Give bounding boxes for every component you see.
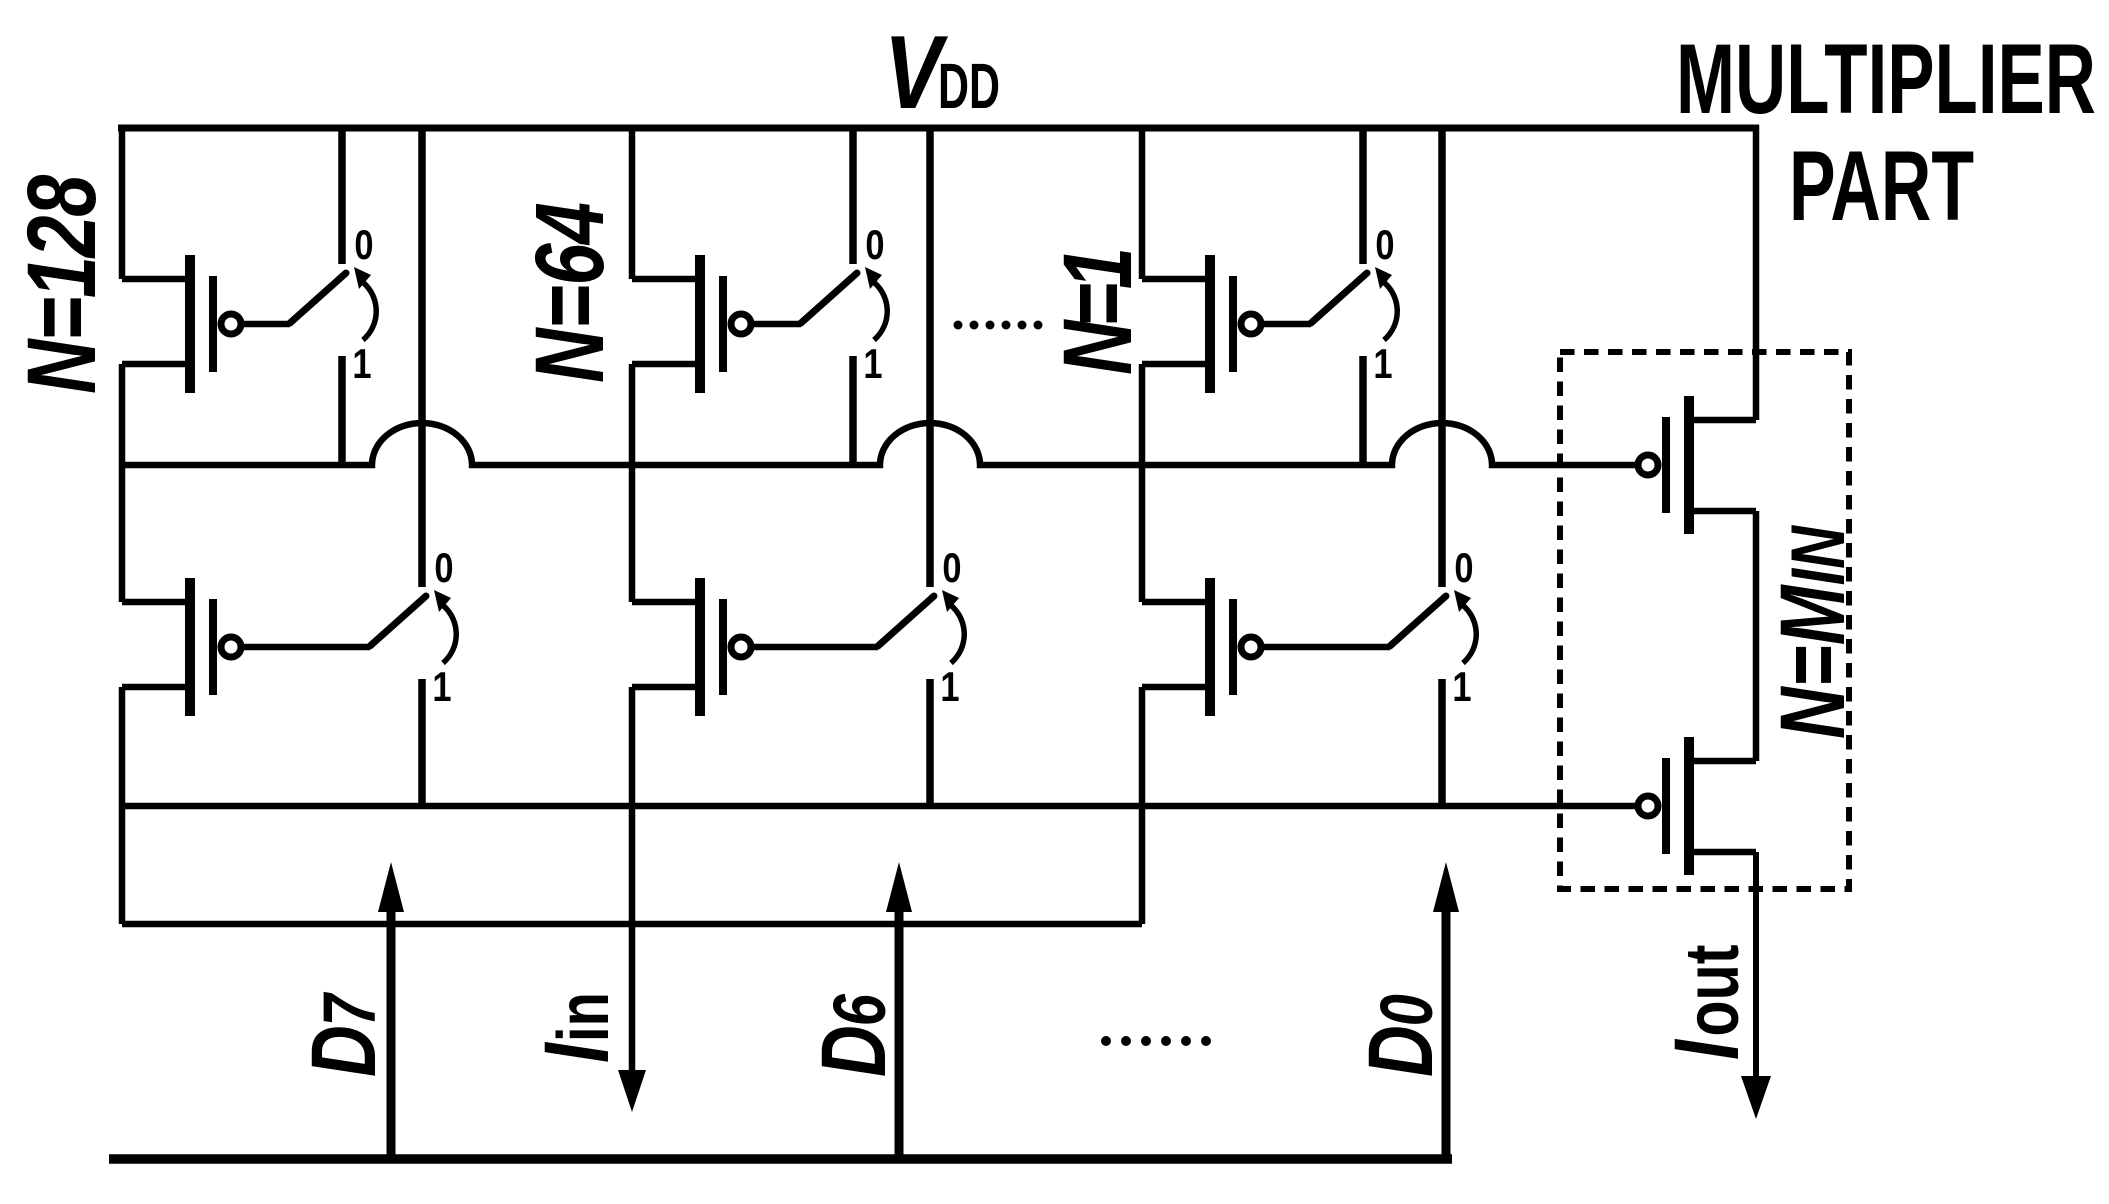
- svg-text:0: 0: [1375, 222, 1394, 269]
- label Iin: [525, 992, 628, 1063]
- switch S3a (D0 row1): [1311, 267, 1397, 340]
- svg-text:N=128: N=128: [8, 174, 116, 394]
- wire cell2 VDD to row1 source: [629, 125, 636, 279]
- transistor Mout-top (N=MIN mirror, upper): [1638, 396, 1756, 534]
- wire cell2 row2 drain to Iin tail: [629, 687, 636, 1074]
- svg-text:1: 1: [1373, 341, 1392, 388]
- Iout arrowhead: [1741, 1076, 1771, 1119]
- digital bus (node DB): [122, 921, 1142, 928]
- switch S1a contact-0 stub (to VDD): [338, 125, 346, 264]
- svg-text:DD: DD: [938, 50, 1000, 122]
- row-1 gate bus (node G1) with hops: [122, 423, 1636, 465]
- wire cell1 row2 drain to bus G2: [119, 687, 126, 806]
- wire VDD feed cell1 (to switch S1b contact-0): [418, 125, 426, 587]
- switch S3a contact-0 stub (to VDD): [1359, 125, 1367, 264]
- wire VDD feed cell2 (to switch S2b contact-0): [926, 125, 934, 587]
- bottom rail: [109, 1154, 1452, 1164]
- gate lead M1a: [242, 321, 290, 328]
- svg-text:0: 0: [942, 545, 961, 592]
- D7 arrowhead: [378, 862, 404, 912]
- label D0: [1349, 994, 1452, 1077]
- switch S3b (D0 row2): [1390, 590, 1476, 663]
- svg-text:0: 0: [865, 222, 884, 269]
- D6 input line: [895, 907, 904, 1159]
- svg-text:in: in: [543, 992, 623, 1042]
- svg-text:1: 1: [352, 341, 371, 388]
- label VDD: [884, 15, 1000, 131]
- switch S2a contact-0 stub (to VDD): [849, 125, 857, 264]
- label D6: [802, 993, 905, 1077]
- wire cell3 row2 drain to bus G2: [1139, 687, 1146, 806]
- switch S2b contact-1 stub (to bus G2): [926, 679, 934, 806]
- wire Mout-top drain to Mout-bottom source: [1753, 511, 1760, 761]
- svg-text:1: 1: [863, 341, 882, 388]
- svg-text:6: 6: [819, 993, 902, 1026]
- D0 arrowhead: [1433, 862, 1459, 912]
- svg-text:0: 0: [1366, 994, 1449, 1026]
- svg-text:7: 7: [309, 992, 392, 1027]
- switch S1a contact-1 stub (to bus G1): [338, 356, 346, 465]
- gate lead M3b: [1262, 644, 1390, 651]
- transistor Mout-bottom (N=MIN mirror, lower): [1638, 737, 1756, 875]
- svg-text:1: 1: [432, 664, 451, 711]
- switch S1b contact-1 stub (to bus G2): [418, 679, 426, 806]
- D6 arrowhead: [886, 862, 912, 912]
- switch S1a (D7 row1): [290, 267, 376, 340]
- gate lead M1b: [242, 644, 370, 651]
- gate lead M2a: [752, 321, 801, 328]
- wire cell1 bus G2 down to digital bus: [119, 806, 126, 924]
- svg-text:D: D: [802, 1025, 905, 1077]
- switch S3b contact-1 stub (to bus G2): [1438, 679, 1446, 806]
- svg-text:N=64: N=64: [516, 202, 624, 383]
- wire cell3 bus G2 down to digital bus: [1139, 806, 1146, 924]
- svg-text:out: out: [1670, 944, 1755, 1036]
- wire VDD feed cell3 (to switch S3b contact-0): [1438, 125, 1446, 587]
- gate lead M3a: [1262, 321, 1311, 328]
- svg-text:I: I: [1655, 1038, 1758, 1060]
- D0 input line: [1442, 907, 1451, 1159]
- svg-text:0: 0: [434, 545, 453, 592]
- wire VDD to Mout-top source: [1753, 125, 1760, 420]
- switch S3a contact-1 stub (to bus G1): [1359, 356, 1367, 465]
- wire cell2 bus G1 to row2 source: [629, 465, 636, 602]
- wire cell1 bus G1 to row2 source: [119, 465, 126, 602]
- dots (omitted cells, row 1): [954, 321, 1043, 330]
- transistor M1a (row1, N=128): [122, 255, 241, 393]
- gate lead Mout-top (from bus G1): [1635, 462, 1636, 469]
- wire cell3 row1 drain to bus G1: [1139, 364, 1146, 465]
- wire cell1 row1 drain to bus G1: [119, 364, 126, 465]
- svg-text:D: D: [292, 1025, 395, 1077]
- label Iout: [1655, 944, 1758, 1060]
- label D7: [292, 992, 395, 1077]
- switch S2b (D6 row2): [878, 590, 964, 663]
- dashed box N=MIN: [1560, 352, 1849, 889]
- transistor M2a (row1, N=64): [632, 255, 751, 393]
- svg-text:0: 0: [354, 222, 373, 269]
- switch S1b (D7 row2): [370, 590, 456, 663]
- wire cell1 VDD to row1 source: [119, 125, 126, 279]
- label N=MIN: [1761, 525, 1864, 739]
- transistor M1b (row2): [122, 578, 241, 716]
- switch S2a (D6 row1): [801, 267, 887, 340]
- wire cell3 VDD to row1 source: [1139, 125, 1146, 279]
- Iout line: [1753, 852, 1759, 1082]
- wire cell3 bus G1 to row2 source: [1139, 465, 1146, 602]
- switch S2a contact-1 stub (to bus G1): [849, 356, 857, 465]
- Iin arrowhead: [618, 1070, 646, 1112]
- wire cell2 row1 drain to bus G1: [629, 364, 636, 465]
- transistor M3a (row1, N=1): [1142, 255, 1261, 393]
- gate lead Mout-bottom (from bus G2): [1635, 803, 1636, 810]
- svg-text:1: 1: [1452, 664, 1471, 711]
- svg-text:0: 0: [1454, 545, 1473, 592]
- svg-text:I: I: [525, 1041, 628, 1063]
- gate lead M2b: [752, 644, 878, 651]
- svg-text:IN: IN: [1776, 525, 1861, 586]
- svg-text:N=M: N=M: [1761, 584, 1864, 739]
- svg-text:N=1: N=1: [1044, 247, 1152, 375]
- svg-text:1: 1: [940, 664, 959, 711]
- D7 input line: [387, 907, 396, 1159]
- svg-text:PART: PART: [1789, 130, 1974, 241]
- VDD rail: [118, 125, 1759, 132]
- dots (omitted D lines): [1101, 1036, 1211, 1046]
- svg-text:MULTIPLIER: MULTIPLIER: [1676, 23, 2096, 134]
- svg-text:D: D: [1349, 1025, 1452, 1077]
- row-2 gate bus (node G2): [122, 803, 1636, 810]
- transistor M2b (row2): [632, 578, 751, 716]
- transistor M3b (row2): [1142, 578, 1261, 716]
